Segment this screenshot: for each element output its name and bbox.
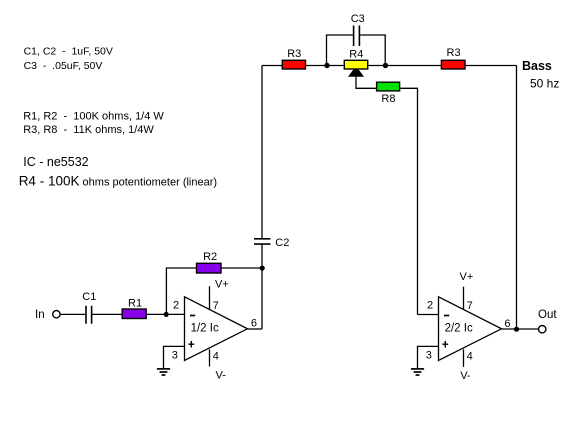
wire C1 to R1 bbox=[92, 313, 122, 315]
U2 pin 7 (V+) bbox=[460, 271, 474, 312]
node: R1/R2 junction bbox=[164, 312, 169, 317]
node A (R3/C3/R4 junction) bbox=[324, 63, 329, 68]
U1 pin 4 (V-) bbox=[210, 349, 227, 381]
wire node up to R2 bbox=[166, 268, 196, 314]
svg-text:Bass: Bass bbox=[522, 59, 552, 73]
U1 pin 3 wire bbox=[164, 346, 185, 368]
resistor R1 bbox=[122, 298, 146, 319]
svg-text:R2: R2 bbox=[203, 251, 217, 263]
U1 output wire (pin 6) bbox=[248, 318, 263, 330]
svg-text:R4: R4 bbox=[349, 49, 363, 61]
svg-text:V+: V+ bbox=[460, 271, 474, 283]
U2 pin 3 wire bbox=[418, 346, 439, 368]
node: output junction bbox=[514, 327, 519, 332]
U1 pin 7 (V+) bbox=[210, 279, 229, 313]
svg-text:4: 4 bbox=[467, 351, 473, 363]
wire output node down to U1 output bbox=[261, 268, 263, 329]
svg-text:R1: R1 bbox=[128, 298, 142, 310]
svg-text:R1, R2 - 100K ohms, 1/4 W: R1, R2 - 100K ohms, 1/4 W bbox=[23, 110, 164, 122]
op-amp U2 (2/2 Ic) bbox=[439, 297, 502, 361]
svg-text:3: 3 bbox=[172, 350, 178, 362]
resistor R8 bbox=[377, 82, 400, 105]
svg-text:C3 - .05uF, 50V: C3 - .05uF, 50V bbox=[24, 60, 103, 72]
svg-text:6: 6 bbox=[251, 318, 257, 330]
ground (U1 pin 3) bbox=[157, 369, 170, 375]
capacitor C1 bbox=[82, 291, 96, 324]
U2 pin 4 (V-) bbox=[460, 349, 473, 382]
svg-text:V+: V+ bbox=[215, 279, 229, 291]
node B (R4/C3 junction) bbox=[383, 63, 388, 68]
node: C2/R2/output junction bbox=[260, 266, 265, 271]
wire In to C1 bbox=[60, 313, 85, 315]
wire wiper to R8 bbox=[356, 77, 377, 89]
svg-text:7: 7 bbox=[213, 300, 219, 312]
wire R1 to U1 pin 2 bbox=[146, 313, 184, 315]
svg-text:2/2 Ic: 2/2 Ic bbox=[445, 322, 473, 334]
resistor R3 (right) bbox=[441, 47, 465, 69]
svg-text:R3, R8 - 11K ohms, 1/4W: R3, R8 - 11K ohms, 1/4W bbox=[23, 124, 154, 136]
svg-text:C3: C3 bbox=[351, 13, 365, 25]
svg-text:3: 3 bbox=[426, 350, 432, 362]
svg-text:C1: C1 bbox=[82, 291, 96, 303]
top rail wire bbox=[262, 65, 517, 67]
U2 output wire (pin 6) bbox=[502, 318, 539, 330]
svg-text:R8: R8 bbox=[381, 93, 395, 105]
input terminal In bbox=[35, 309, 60, 321]
svg-text:4: 4 bbox=[213, 351, 219, 363]
svg-text:7: 7 bbox=[467, 300, 473, 312]
svg-text:R3: R3 bbox=[447, 47, 461, 59]
resistor R2 bbox=[197, 251, 222, 273]
svg-text:R4 - 100K ohms potentiometer (: R4 - 100K ohms potentiometer (linear) bbox=[19, 174, 217, 189]
svg-text:50 hz: 50 hz bbox=[530, 77, 559, 91]
wire top rail to output node (right vertical) bbox=[516, 66, 518, 330]
svg-text:2: 2 bbox=[427, 300, 433, 312]
output terminal Out bbox=[538, 309, 557, 333]
label Bass 50 hz bbox=[522, 59, 559, 91]
svg-text:6: 6 bbox=[504, 318, 510, 330]
op-amp U1 (1/2 Ic) bbox=[185, 297, 248, 361]
svg-text:C2: C2 bbox=[275, 237, 289, 249]
capacitor C2 bbox=[254, 237, 289, 268]
wire R8 to U2 pin 2 bbox=[400, 88, 418, 314]
svg-text:IC - ne5532: IC - ne5532 bbox=[23, 155, 88, 169]
resistor R3 (left) bbox=[282, 48, 305, 69]
capacitor C3 bbox=[327, 13, 386, 66]
wire C2 to top rail bbox=[261, 66, 263, 239]
svg-text:In: In bbox=[35, 309, 45, 321]
svg-text:Out: Out bbox=[538, 309, 557, 321]
ground (U2 pin 3) bbox=[411, 369, 424, 375]
svg-text:C1, C2 - 1uF, 50V: C1, C2 - 1uF, 50V bbox=[24, 45, 113, 57]
svg-text:2: 2 bbox=[173, 300, 179, 312]
U2 pin 2 wire bbox=[418, 314, 439, 316]
parts list bbox=[19, 45, 217, 188]
potentiometer R4 bbox=[344, 49, 367, 77]
svg-text:V-: V- bbox=[216, 370, 227, 382]
svg-text:R3: R3 bbox=[287, 48, 301, 60]
svg-text:1/2 Ic: 1/2 Ic bbox=[191, 322, 219, 334]
svg-text:V-: V- bbox=[460, 370, 471, 382]
wire R2 to C2 node bbox=[221, 267, 262, 269]
